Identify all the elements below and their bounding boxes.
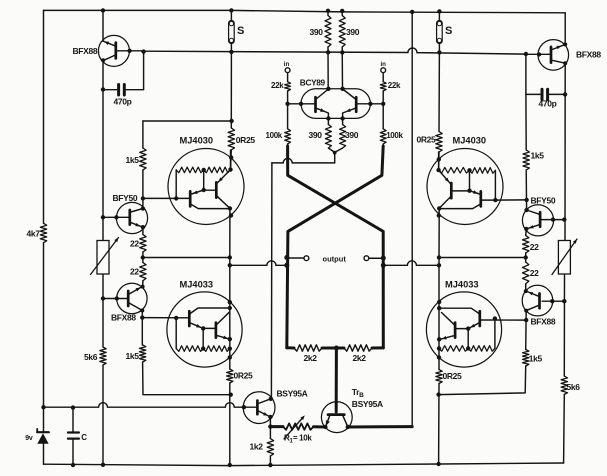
svg-text:in: in — [380, 61, 386, 68]
svg-text:100k: 100k — [266, 131, 283, 140]
svg-text:22k: 22k — [388, 81, 401, 90]
svg-text:1k5: 1k5 — [529, 354, 543, 364]
svg-text:9v: 9v — [25, 435, 33, 442]
svg-text:470p: 470p — [539, 99, 557, 109]
svg-text:in: in — [284, 61, 290, 68]
svg-text:0R25: 0R25 — [417, 135, 437, 145]
svg-text:BFX88: BFX88 — [111, 313, 136, 323]
svg-text:1k5: 1k5 — [126, 155, 140, 165]
svg-text:390: 390 — [346, 27, 360, 37]
svg-text:5k6: 5k6 — [567, 382, 581, 392]
svg-text:0R25: 0R25 — [443, 371, 463, 381]
svg-text:BSY95A: BSY95A — [352, 399, 383, 409]
svg-text:22: 22 — [130, 239, 139, 249]
svg-text:BSY95A: BSY95A — [277, 389, 308, 399]
svg-text:MJ4030: MJ4030 — [180, 136, 214, 146]
svg-text:BFX88: BFX88 — [576, 50, 601, 60]
svg-text:22: 22 — [130, 267, 139, 277]
svg-text:BFX88: BFX88 — [531, 316, 556, 326]
svg-text:390: 390 — [310, 27, 324, 37]
svg-text:MJ4033: MJ4033 — [445, 280, 479, 290]
svg-text:22k: 22k — [271, 81, 284, 90]
svg-text:C: C — [81, 433, 87, 442]
svg-text:BFX88: BFX88 — [73, 46, 98, 56]
svg-text:22: 22 — [530, 242, 539, 252]
svg-text:390: 390 — [345, 130, 359, 140]
svg-text:1k5: 1k5 — [531, 151, 545, 161]
svg-text:0R25: 0R25 — [236, 135, 256, 145]
svg-text:BCY89: BCY89 — [300, 78, 326, 88]
svg-text:BFY50: BFY50 — [113, 193, 138, 203]
svg-text:5k6: 5k6 — [84, 352, 98, 362]
svg-text:S: S — [445, 25, 452, 37]
svg-text:2k2: 2k2 — [304, 353, 318, 363]
svg-text:390: 390 — [309, 130, 323, 140]
svg-text:MJ4033: MJ4033 — [180, 280, 214, 290]
svg-text:S: S — [237, 25, 244, 37]
svg-text:1k2: 1k2 — [250, 442, 264, 452]
svg-text:MJ4030: MJ4030 — [453, 136, 487, 146]
svg-text:output: output — [323, 255, 347, 264]
svg-text:2k2: 2k2 — [353, 353, 367, 363]
svg-text:0R25: 0R25 — [234, 371, 254, 381]
svg-text:1k5: 1k5 — [126, 351, 140, 361]
svg-text:22: 22 — [530, 268, 539, 278]
svg-text:4k7: 4k7 — [27, 229, 41, 239]
svg-text:470p: 470p — [114, 97, 132, 107]
svg-text:BFY50: BFY50 — [531, 196, 556, 206]
svg-text:100k: 100k — [386, 131, 403, 140]
